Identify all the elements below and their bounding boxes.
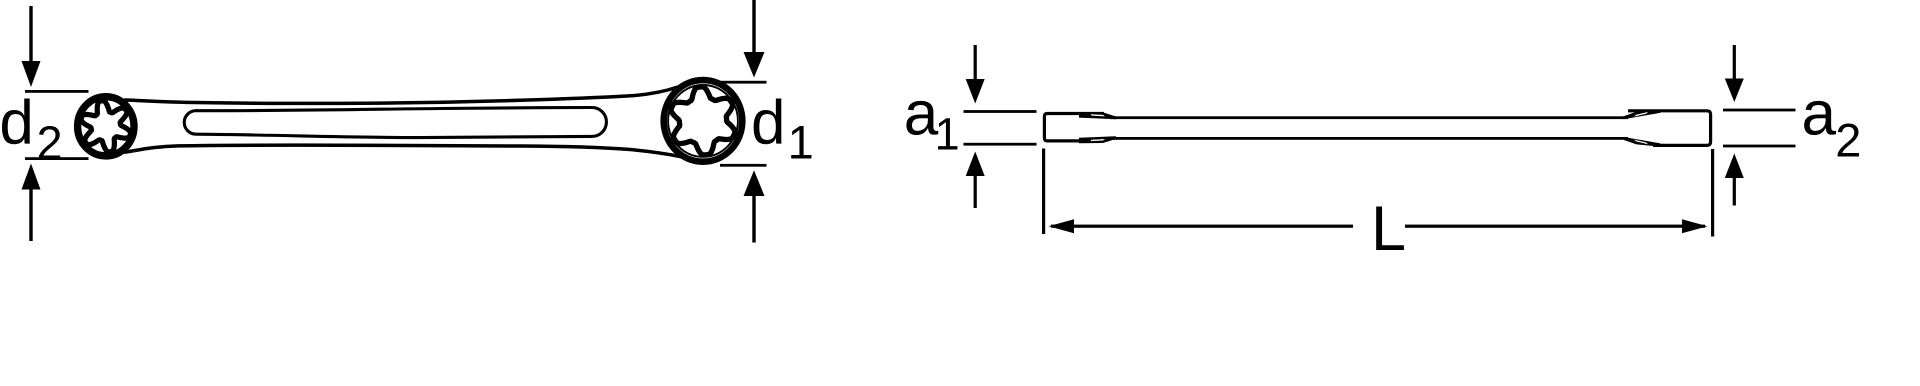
side view right head [1652,109,1712,147]
left ring head [78,97,134,156]
dim a2 top tick [1723,109,1796,112]
dim L line right segment [1405,225,1705,228]
svg-text:1: 1 [788,115,814,168]
dim L right extension line [1711,149,1714,237]
dim a2 bottom arrow [1725,154,1744,179]
dim a1 bottom tick [964,143,1037,146]
dim d1 bottom arrow [744,170,765,196]
dim a1 top tick [964,110,1037,113]
dim d1 top arrow [752,0,755,53]
dim L line left segment [1051,225,1353,228]
dim L left extension line [1042,149,1045,235]
svg-text:d: d [0,89,34,158]
right head bottom transition wedge [1624,137,1661,147]
dim d2 top arrow [29,6,32,63]
dim L right arrowhead [1682,219,1708,233]
left torx star [81,101,131,152]
dim d2 bottom arrow [22,164,41,190]
right head top transition wedge [1624,110,1661,120]
dim d1 top tick [720,81,767,84]
dim L left arrowhead [1049,219,1075,233]
svg-text:2: 2 [37,116,63,169]
left head bottom transition wedge [1079,136,1116,143]
dim d2 bottom tick [25,157,89,160]
svg-text:d: d [751,89,785,158]
dim a1 bottom arrow [966,152,985,177]
wrench top-view slot [184,108,606,138]
left head top transition wedge [1079,112,1116,119]
svg-text:L: L [1371,194,1406,264]
dim d2 top tick [25,90,89,93]
svg-text:2: 2 [1835,113,1861,166]
side view shaft top line [1110,116,1628,119]
dim a2 top arrow [1733,45,1736,79]
right ring chamfer circle [668,85,738,157]
dim d1 bottom tick [720,164,767,167]
svg-text:a: a [1802,80,1837,149]
side view left head [1044,114,1104,141]
wrench top-view body (shaft) [126,87,680,157]
right torx star [671,87,735,155]
right ring head [664,80,743,162]
svg-text:a: a [904,79,939,148]
side view shaft bottom line [1110,137,1628,140]
svg-text:1: 1 [935,108,960,159]
dim a2 bottom tick [1723,145,1796,148]
dim a1 top arrow [974,45,977,80]
